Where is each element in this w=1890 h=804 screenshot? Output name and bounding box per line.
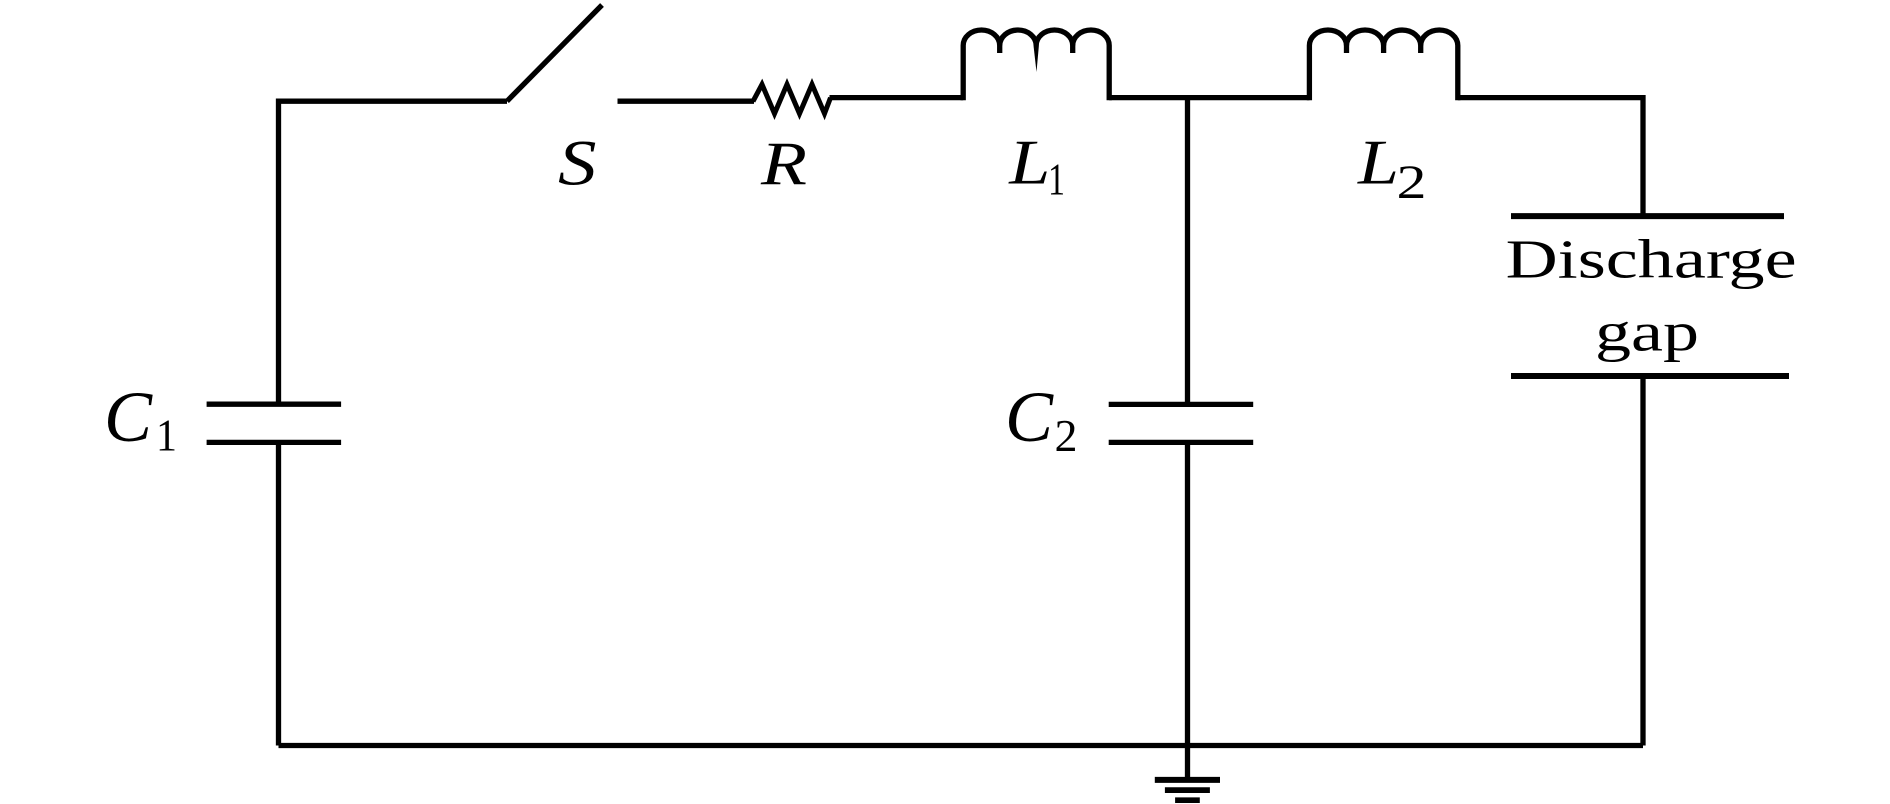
svg-text:C: C xyxy=(104,377,153,457)
svg-text:2: 2 xyxy=(1055,410,1078,461)
svg-text:L: L xyxy=(1357,127,1399,198)
svg-text:Discharge: Discharge xyxy=(1506,229,1797,290)
svg-text:C: C xyxy=(1005,377,1054,457)
svg-text:S: S xyxy=(558,128,597,200)
svg-text:gap: gap xyxy=(1595,302,1699,363)
svg-text:2: 2 xyxy=(1397,156,1427,209)
svg-text:R: R xyxy=(760,131,807,198)
svg-text:1: 1 xyxy=(1048,154,1065,205)
svg-text:1: 1 xyxy=(156,411,177,461)
svg-text:L: L xyxy=(1008,127,1050,198)
